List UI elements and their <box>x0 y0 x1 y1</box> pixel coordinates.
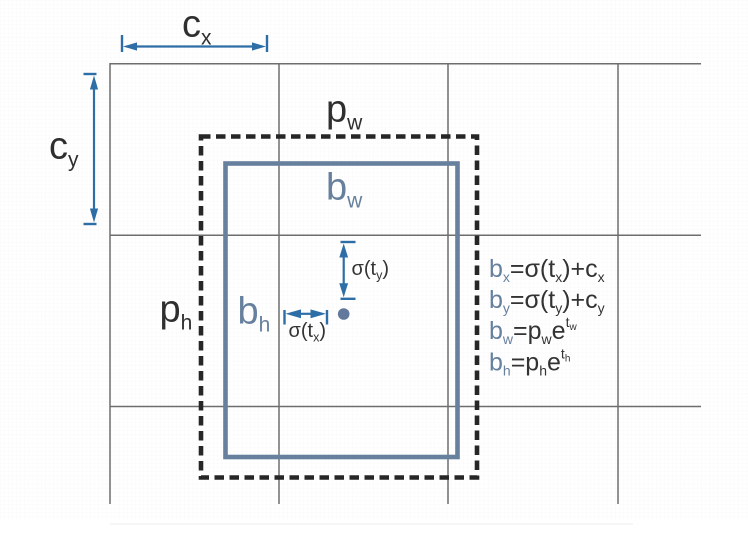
box center dot <box>338 308 350 320</box>
grid vertical line 4 <box>617 63 619 504</box>
svg-text:σ(tx): σ(tx) <box>289 320 326 345</box>
dimension arrow c_x <box>122 35 267 52</box>
grid faint bottom line <box>110 523 633 525</box>
dimension arrow sigma(t_y) <box>339 242 355 299</box>
grid horizontal line 3 <box>110 406 701 408</box>
predicted box (solid blue) <box>226 164 458 458</box>
grid vertical line 3 <box>447 63 449 504</box>
grid horizontal line 1 <box>110 63 701 65</box>
grid horizontal line 2 <box>110 234 701 236</box>
grid vertical line 2 <box>278 63 280 504</box>
grid vertical line 1 <box>109 63 111 504</box>
svg-text:σ(ty): σ(ty) <box>352 258 389 283</box>
svg-text:bw=pwetw: bw=pwetw <box>489 314 577 347</box>
dimension arrow sigma(t_x) <box>285 309 328 324</box>
svg-text:bh=pheth: bh=pheth <box>489 346 570 379</box>
prior anchor box (dashed) <box>201 137 477 478</box>
dimension arrow c_y <box>84 74 99 224</box>
